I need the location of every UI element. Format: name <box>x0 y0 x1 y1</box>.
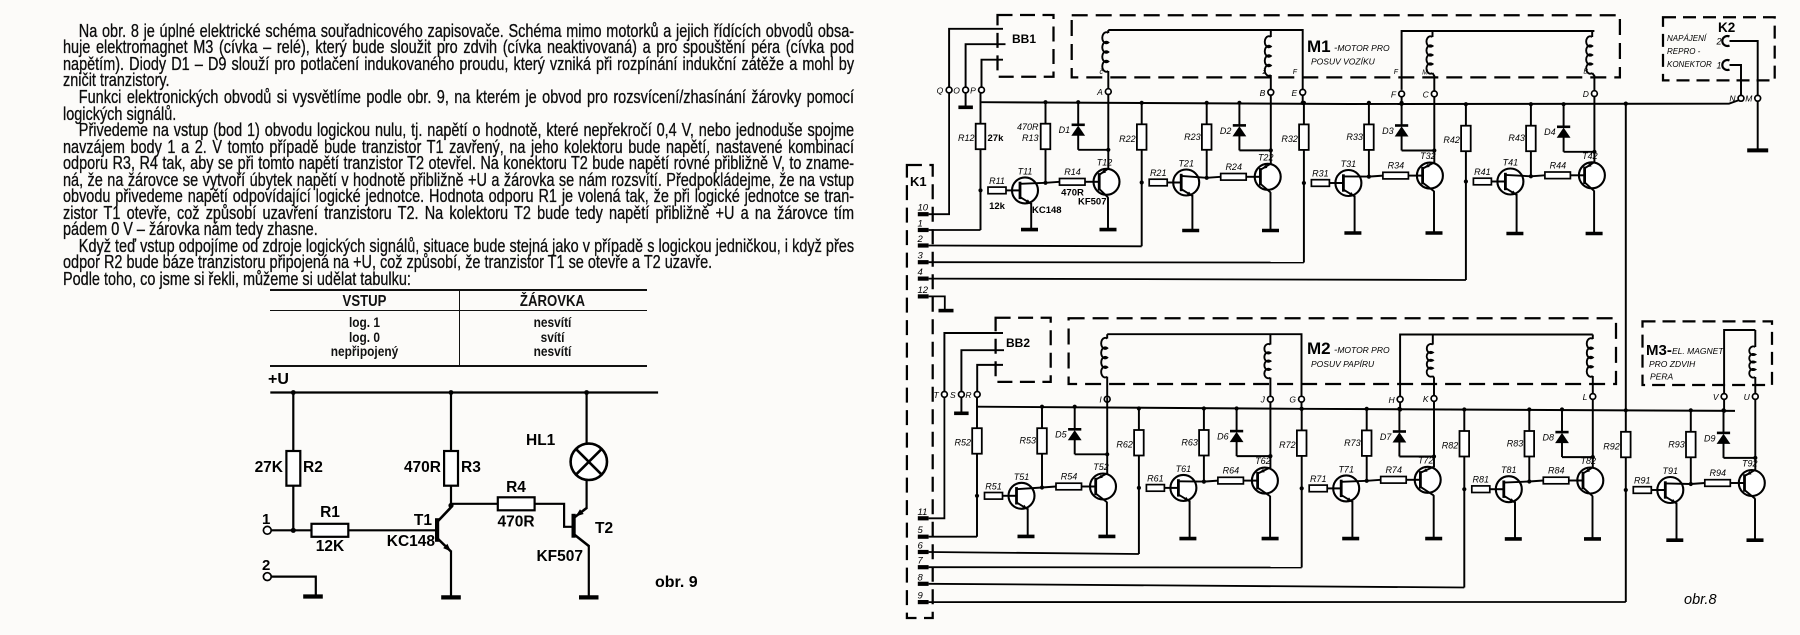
svg-text:Q: Q <box>937 86 944 96</box>
wire R4 to T2 base <box>535 504 574 527</box>
svg-text:470R: 470R <box>404 459 441 476</box>
svg-text:-MOTOR PRO: -MOTOR PRO <box>1334 345 1390 356</box>
svg-text:T2: T2 <box>595 520 613 537</box>
wire base of T41 <box>1491 181 1497 183</box>
transistor T82 (PNP) <box>1577 468 1603 494</box>
svg-text:BB1: BB1 <box>1012 32 1036 46</box>
diode D7 <box>1397 407 1401 411</box>
wire K1 pin 8 bus <box>929 584 1465 588</box>
svg-text:R23: R23 <box>1184 132 1201 142</box>
node base junction R61/R62 <box>1137 486 1141 490</box>
resistor R91 <box>1633 487 1651 494</box>
svg-text:R31: R31 <box>1312 169 1329 179</box>
svg-text:+U: +U <box>268 371 289 388</box>
wire base of T91 <box>1651 489 1657 491</box>
terminal I <box>1104 396 1110 402</box>
wire V to rail <box>1723 399 1725 411</box>
terminal C <box>1431 91 1437 97</box>
K1 pin 11 stub <box>918 516 929 520</box>
svg-text:KONEKTOR: KONEKTOR <box>1667 60 1712 69</box>
wire terminal 2 to ground <box>271 577 316 596</box>
diode D2 <box>1237 101 1241 105</box>
diode D9 <box>1721 408 1725 412</box>
resistor R63 <box>1203 409 1205 482</box>
wire emitter line from terminal to T72 <box>1433 401 1435 467</box>
transistor T42 (PNP) <box>1579 162 1605 188</box>
resistor R31 <box>1311 180 1329 187</box>
resistor R12 <box>976 124 986 150</box>
resistor R21 <box>1149 179 1167 186</box>
svg-text:NAPÁJENÍ: NAPÁJENÍ <box>1667 34 1708 43</box>
svg-text:T52: T52 <box>1093 462 1109 472</box>
terminal R <box>974 392 980 398</box>
terminal L <box>1590 394 1596 400</box>
node base junction R81/R82 <box>1462 487 1466 491</box>
lamp HL1 <box>571 444 607 480</box>
svg-text:6: 6 <box>918 541 924 552</box>
svg-text:E: E <box>1292 88 1298 98</box>
svg-text:D4: D4 <box>1544 127 1556 137</box>
svg-text:H: H <box>1388 395 1395 405</box>
svg-text:T31: T31 <box>1341 159 1357 169</box>
svg-text:2: 2 <box>917 234 924 245</box>
svg-text:T92: T92 <box>1742 459 1758 469</box>
svg-text:T12: T12 <box>1097 157 1113 167</box>
transistor T81 (NPN) <box>1496 476 1522 502</box>
svg-text:EL. MAGNET: EL. MAGNET <box>1672 346 1724 356</box>
svg-text:I: I <box>1099 395 1102 405</box>
wire input line R42 column <box>1465 104 1467 280</box>
wire input line R92 column <box>1625 104 1627 602</box>
svg-text:R24: R24 <box>1225 162 1242 172</box>
resistor R72 <box>1297 430 1307 456</box>
wire emitter line from terminal to T22 <box>1270 95 1272 164</box>
wire K2 pin 1 to N <box>1730 65 1742 95</box>
K1 pin 2 stub <box>918 243 929 247</box>
svg-text:R64: R64 <box>1223 466 1240 476</box>
wire K1 pin 7 bus <box>929 566 1302 568</box>
block BB2 box <box>996 318 1051 382</box>
wire K1 pin 10 to Q <box>929 93 950 214</box>
resistor R14 <box>1046 182 1060 183</box>
wire base of T52 <box>1082 486 1091 488</box>
wire T to BB2 <box>944 333 1003 392</box>
svg-text:3: 3 <box>918 251 924 262</box>
resistor R53 <box>1041 407 1043 488</box>
svg-text:12: 12 <box>918 285 929 296</box>
wire K1 pin 9 bus <box>929 601 1626 603</box>
terminal G <box>1299 396 1305 402</box>
wire base of T11 <box>1006 189 1012 191</box>
node base junction R21/R22 <box>1140 180 1144 184</box>
K1 pin 3 stub <box>918 260 929 264</box>
wire M1 winding common (F-M-B) <box>1402 31 1595 90</box>
svg-text:T62: T62 <box>1255 456 1271 466</box>
node base junction R31/R32 <box>1302 181 1306 185</box>
K1 pin 4 stub <box>918 277 929 281</box>
wire emitter line from terminal to T32 <box>1433 97 1435 163</box>
diode D4 <box>1562 102 1566 106</box>
svg-text:K1: K1 <box>910 174 927 189</box>
node T1 collector junction <box>448 503 453 508</box>
K1 pin 12 stub <box>918 294 929 298</box>
svg-text:1: 1 <box>262 511 270 528</box>
svg-text:S: S <box>950 390 956 400</box>
svg-text:R73: R73 <box>1344 438 1361 448</box>
resistor R42 <box>1461 126 1471 152</box>
wire K1 pin 3 bus <box>929 261 1304 263</box>
svg-text:R91: R91 <box>1634 476 1651 486</box>
svg-text:D6: D6 <box>1217 432 1229 442</box>
transistor T61 (NPN) <box>1170 475 1196 501</box>
K1 pin 9 stub <box>918 600 929 604</box>
diode D1 <box>1076 100 1080 104</box>
wire input line R12 column <box>980 93 982 230</box>
svg-text:10: 10 <box>918 203 929 214</box>
terminal J <box>1268 396 1274 402</box>
svg-text:R1: R1 <box>320 504 340 521</box>
svg-text:O: O <box>953 86 960 96</box>
svg-text:J: J <box>1260 395 1266 405</box>
terminal Q <box>946 87 952 93</box>
resistor R71 <box>1309 485 1327 492</box>
svg-text:-MOTOR PRO: -MOTOR PRO <box>1334 43 1390 54</box>
wire base of T21 <box>1167 182 1173 184</box>
inductor M2 winding L <box>1592 335 1594 340</box>
diode D3 <box>1400 101 1404 105</box>
wire E to rail <box>1302 95 1304 103</box>
terminal U <box>1752 394 1758 400</box>
K2 socket pin 2 <box>1722 36 1729 46</box>
K1 pin 1 stub <box>918 228 929 232</box>
svg-text:B: B <box>1583 69 1588 76</box>
wire collector to R4 <box>451 503 498 505</box>
svg-text:R21: R21 <box>1150 168 1167 178</box>
svg-text:R34: R34 <box>1388 161 1405 171</box>
svg-text:2: 2 <box>1716 37 1722 47</box>
svg-text:12k: 12k <box>989 201 1006 212</box>
wire K1 pin 1 bus <box>929 229 981 231</box>
svg-text:HL1: HL1 <box>526 432 556 449</box>
svg-text:KF507: KF507 <box>536 548 583 565</box>
svg-text:T81: T81 <box>1501 465 1517 475</box>
resistor R54 <box>1042 487 1056 488</box>
wire base of T62 <box>1243 480 1252 482</box>
svg-text:L: L <box>1583 392 1588 402</box>
node input junction <box>291 528 296 533</box>
resistor R24 <box>1207 177 1221 178</box>
svg-text:9: 9 <box>918 591 924 602</box>
terminal B <box>1268 89 1274 95</box>
diode D8 <box>1560 407 1564 411</box>
resistor R93 <box>1690 410 1692 484</box>
transistor T32 (PNP) <box>1417 163 1443 189</box>
wire M2 winding common (H-K-L) <box>1400 335 1593 397</box>
wire emitter line from terminal to T52 <box>1106 397 1108 474</box>
wire terminal1 to R1 <box>271 529 311 531</box>
svg-text:T21: T21 <box>1178 159 1194 169</box>
resistor R82 <box>1460 431 1470 457</box>
motor M1 box <box>1072 15 1620 77</box>
wire input line R32 column <box>1303 103 1305 263</box>
wire input line R72 column <box>1301 409 1303 568</box>
wire K1 pin 5 bus <box>929 536 977 538</box>
svg-text:PRO ZDVIH: PRO ZDVIH <box>1649 359 1696 369</box>
svg-text:R62: R62 <box>1116 440 1133 450</box>
svg-text:R63: R63 <box>1181 438 1198 448</box>
svg-text:R2: R2 <box>303 459 323 476</box>
resistor R32 <box>1299 124 1309 149</box>
svg-text:P: P <box>970 86 976 96</box>
svg-text:D: D <box>1583 89 1589 99</box>
svg-text:R93: R93 <box>1668 439 1685 449</box>
svg-text:M1: M1 <box>1307 37 1331 56</box>
svg-text:T22: T22 <box>1258 152 1274 162</box>
resistor R33 <box>1368 103 1370 177</box>
inductor M2 winding I <box>1106 334 1108 338</box>
svg-text:2: 2 <box>262 557 270 574</box>
svg-text:M: M <box>1745 94 1753 104</box>
inductor M1 winding B <box>1270 30 1272 37</box>
ground at terminal 2 <box>303 594 323 598</box>
K1 pin 10 stub <box>918 212 929 216</box>
wire base of T61 <box>1164 487 1170 489</box>
svg-text:R12: R12 <box>958 133 975 143</box>
wire K2 pin 2 to M <box>1730 41 1758 95</box>
wire Q to BB1 <box>949 29 1003 87</box>
terminal 2 <box>263 573 271 581</box>
svg-text:BB2: BB2 <box>1006 336 1030 350</box>
transistor T91 (NPN) <box>1657 477 1683 503</box>
svg-text:R94: R94 <box>1710 468 1727 478</box>
wire base of T22 <box>1246 176 1255 178</box>
svg-text:KC148: KC148 <box>387 533 436 550</box>
svg-text:R81: R81 <box>1473 475 1490 485</box>
resistor R22 <box>1137 124 1147 150</box>
svg-text:12K: 12K <box>316 538 345 555</box>
svg-text:R44: R44 <box>1550 160 1567 170</box>
svg-text:G: G <box>1289 395 1296 405</box>
transistor T41 (NPN) <box>1497 169 1523 195</box>
svg-text:T51: T51 <box>1014 472 1030 482</box>
transistor T31 (NPN) <box>1335 170 1361 196</box>
svg-text:F: F <box>1391 89 1397 99</box>
node base junction R71/R72 <box>1300 486 1304 490</box>
svg-text:8: 8 <box>918 572 924 583</box>
resistor R81 <box>1472 486 1490 493</box>
svg-text:N: N <box>1729 94 1736 104</box>
wire K1 pin 2 bus <box>929 245 1142 248</box>
svg-text:D7: D7 <box>1380 432 1392 442</box>
svg-text:R11: R11 <box>989 176 1005 186</box>
svg-text:1: 1 <box>918 219 923 230</box>
resistor R13 <box>1045 102 1047 183</box>
wire base of T82 <box>1569 480 1578 482</box>
svg-text:R14: R14 <box>1064 167 1081 177</box>
svg-text:R71: R71 <box>1310 474 1327 484</box>
svg-text:POSUV PAPÍRU: POSUV PAPÍRU <box>1311 359 1375 369</box>
ground under O <box>965 93 967 107</box>
svg-text:27k: 27k <box>988 133 1005 144</box>
resistor R94 <box>1691 483 1705 484</box>
svg-text:R33: R33 <box>1346 132 1363 142</box>
svg-text:5: 5 <box>918 525 924 536</box>
resistor R64 <box>1204 481 1218 482</box>
resistor R73 <box>1366 409 1368 481</box>
wire emitter line from terminal to T42 <box>1593 97 1595 163</box>
svg-text:470R: 470R <box>497 514 534 531</box>
terminal E <box>1300 89 1306 95</box>
motor M2 box <box>1069 318 1616 384</box>
svg-text:KF507: KF507 <box>1078 196 1107 207</box>
svg-text:R53: R53 <box>1019 436 1036 446</box>
svg-text:D1: D1 <box>1059 125 1071 135</box>
wire emitter line from terminal to T12 <box>1107 95 1109 170</box>
node base junction R91/R92 <box>1624 488 1628 492</box>
svg-text:B: B <box>1260 88 1266 98</box>
svg-text:U: U <box>1744 392 1751 402</box>
resistor R11 <box>988 187 1006 194</box>
wire F to rail <box>1401 97 1403 104</box>
transistor T11 (NPN) <box>1012 177 1038 203</box>
svg-text:R52: R52 <box>954 438 971 448</box>
svg-text:R42: R42 <box>1443 135 1460 145</box>
svg-text:T61: T61 <box>1176 464 1192 474</box>
svg-text:R41: R41 <box>1474 167 1491 177</box>
wire base of T92 <box>1730 482 1739 484</box>
connector K2 box <box>1663 17 1775 80</box>
svg-text:R61: R61 <box>1147 473 1164 483</box>
resistor R83 <box>1528 410 1530 482</box>
wire link top rail to bottom rail / R92 column <box>1624 102 1628 106</box>
node base junction R41/R42 <box>1464 179 1468 183</box>
transistor T1 (KC148) <box>435 518 439 542</box>
wire K1 pin 6 bus <box>929 552 1139 554</box>
svg-text:M: M <box>1422 70 1428 77</box>
transistor T2 (KF507) <box>571 514 575 538</box>
wire P to BB1 <box>982 60 1004 87</box>
wire base of T42 <box>1570 174 1579 176</box>
transistor T51 (NPN) <box>1009 483 1035 509</box>
svg-text:R4: R4 <box>506 479 526 496</box>
svg-text:27K: 27K <box>255 459 284 476</box>
svg-text:F: F <box>1394 69 1399 76</box>
inductor M1 winding A <box>1107 30 1109 33</box>
svg-text:T91: T91 <box>1663 466 1679 476</box>
svg-text:R82: R82 <box>1442 441 1459 451</box>
svg-text:č: č <box>1100 69 1104 76</box>
connector K1 box <box>907 165 933 618</box>
transistor T52 (PNP) <box>1090 474 1116 500</box>
wire M1 winding common (A-B-E) <box>1108 30 1302 89</box>
wire T2 emitter to lamp <box>585 480 587 509</box>
resistor R43 <box>1530 104 1532 176</box>
terminal M <box>1755 95 1761 101</box>
block BB1 box <box>998 15 1054 77</box>
resistor R23 <box>1206 103 1208 178</box>
wire base of T71 <box>1327 487 1333 489</box>
svg-text:R83: R83 <box>1507 439 1524 449</box>
node base junction R51/R52 <box>975 494 979 498</box>
terminal N <box>1738 95 1744 101</box>
inductor M2 winding J <box>1269 334 1271 344</box>
resistor R84 <box>1529 481 1543 482</box>
resistor R41 <box>1473 178 1491 185</box>
wire emitter line from terminal to T82 <box>1592 399 1594 468</box>
resistor R44 <box>1531 175 1545 176</box>
wire base of T51 <box>1003 495 1009 497</box>
svg-text:R54: R54 <box>1061 472 1078 482</box>
svg-text:1: 1 <box>1717 61 1722 71</box>
wire input line R22 column <box>1141 103 1143 247</box>
svg-text:M2: M2 <box>1307 339 1331 358</box>
wire emitter line from terminal to T62 <box>1269 402 1271 468</box>
svg-text:K2: K2 <box>1718 20 1735 35</box>
K1 pin 8 stub <box>918 582 929 586</box>
svg-text:D2: D2 <box>1220 126 1232 136</box>
svg-text:R13: R13 <box>1022 133 1039 143</box>
wire base of T32 <box>1408 175 1417 177</box>
inductor M2 winding K <box>1432 335 1434 345</box>
resistor R61 <box>1146 485 1164 492</box>
ground under S <box>960 397 962 412</box>
wire base of T72 <box>1406 479 1415 481</box>
svg-text:R74: R74 <box>1385 465 1402 475</box>
terminal K <box>1431 396 1437 402</box>
resistor R52 <box>972 428 982 454</box>
svg-text:C: C <box>1423 89 1430 99</box>
transistor T92 (PNP) <box>1739 470 1765 496</box>
wire K1 pin 12 to ground <box>929 296 945 309</box>
inductor M1 winding M <box>1432 31 1434 37</box>
svg-text:ž: ž <box>1262 69 1267 76</box>
svg-text:A: A <box>1096 87 1103 97</box>
resistor R4 <box>498 497 535 510</box>
transistor T62 (PNP) <box>1252 468 1278 494</box>
inductor M1 winding B2 <box>1591 31 1593 37</box>
svg-text:7: 7 <box>918 556 924 567</box>
ground under M <box>1757 101 1759 149</box>
K1 pin 7 stub <box>918 565 929 569</box>
svg-text:F: F <box>1293 69 1298 76</box>
resistor R92 <box>1621 432 1631 458</box>
wire +U rail (bottom half) <box>977 407 1735 411</box>
wire S to BB2 <box>961 350 1004 391</box>
svg-text:K: K <box>1423 394 1429 404</box>
svg-text:470R: 470R <box>1017 122 1039 132</box>
svg-text:T11: T11 <box>1018 166 1033 176</box>
svg-text:T32: T32 <box>1420 151 1436 161</box>
svg-text:KC148: KC148 <box>1032 205 1062 216</box>
svg-text:obr. 9: obr. 9 <box>655 574 698 591</box>
wire +U rail (top half) <box>982 100 1740 104</box>
wire M3 coil top (V-U) <box>1724 330 1755 394</box>
K2 socket pin 1 <box>1722 60 1729 70</box>
resistor R51 <box>985 493 1003 500</box>
terminal O <box>963 87 969 93</box>
svg-text:obr.8: obr.8 <box>1684 592 1717 608</box>
wire R1 to T1 base <box>348 529 437 531</box>
svg-text:M3-: M3- <box>1646 342 1672 359</box>
wire H to rail <box>1399 402 1401 409</box>
svg-text:4: 4 <box>918 267 923 278</box>
svg-text:D3: D3 <box>1382 126 1394 136</box>
resistor R3 <box>450 393 452 508</box>
svg-text:D5: D5 <box>1055 430 1067 440</box>
transistor T22 (PNP) <box>1255 164 1281 190</box>
K1 pin 5 stub <box>918 535 929 539</box>
svg-text:T: T <box>933 390 939 400</box>
